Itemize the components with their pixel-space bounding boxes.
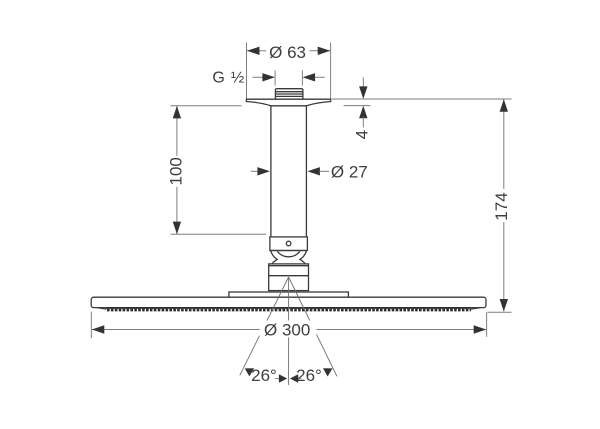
dimension G1/2 leader line left — [253, 76, 264, 78]
dimension 100 arrow up — [173, 106, 181, 119]
svg-text:26°: 26° — [296, 366, 322, 385]
spray cone right line — [289, 277, 337, 376]
thread line 3 — [275, 95, 303, 97]
dimension 100 line lower segment — [176, 187, 178, 234]
dimension 4 arrow down — [359, 86, 367, 99]
dimension D63 arrow left — [247, 47, 260, 55]
dimension D63 arrow right — [318, 47, 331, 55]
collar box — [270, 237, 308, 251]
svg-text:Ø 300: Ø 300 — [264, 320, 310, 339]
pipe right edge — [305, 106, 307, 237]
plate chamfer left — [97, 308, 107, 310]
pipe left edge — [270, 106, 272, 237]
dimension 174 bottom extension line — [487, 311, 511, 313]
angle 26 center stub left — [275, 378, 279, 380]
joint base box divider — [269, 275, 309, 277]
nozzle dashes — [107, 309, 471, 312]
svg-text:Ø 27: Ø 27 — [331, 162, 368, 181]
dimension 100 top extension line — [171, 105, 242, 107]
dimension 174 line upper segment — [503, 99, 505, 189]
dimension 4 top extension line (ceiling plane, shared with 174) — [332, 98, 512, 100]
dimension 4 lower leader — [362, 117, 364, 127]
angle 26 center arrow pointing left — [290, 374, 298, 383]
hub step — [229, 292, 349, 297]
dimension G1/2 tick left — [274, 70, 276, 85]
dimension D27 leader line left — [251, 170, 263, 172]
dimension D300 label background — [260, 321, 317, 338]
dimension D63 extension line left — [246, 43, 248, 99]
dimension D300 arrow right — [474, 325, 487, 333]
dimension 174 arrow up — [500, 99, 508, 112]
ceiling flange — [246, 99, 330, 106]
dimension G1/2 arrow right — [303, 73, 316, 81]
dimension 174 line lower segment — [503, 222, 505, 311]
dimension 100 line upper segment — [176, 106, 178, 156]
svg-text:174: 174 — [492, 192, 511, 220]
collar hole — [286, 241, 291, 246]
thread line 2 — [275, 93, 303, 95]
svg-text:26°: 26° — [251, 366, 277, 385]
thread line 1 — [275, 91, 303, 93]
shower plate — [91, 297, 486, 307]
nozzle face line — [107, 307, 472, 309]
angle 26 center stub right — [298, 378, 302, 380]
dimension D63 line right segment — [310, 50, 331, 52]
svg-text:G ½: G ½ — [212, 70, 245, 87]
dimension D300 extension line left — [90, 312, 92, 338]
svg-text:4: 4 — [352, 130, 371, 139]
dimension D300 line left segment — [92, 329, 260, 331]
dimension 100 arrow down — [173, 222, 181, 235]
plate chamfer right — [471, 308, 481, 310]
dimension 4 upper leader — [362, 78, 364, 93]
angle 26 outer arrow right — [323, 368, 333, 376]
dimension 4 arrow up — [359, 106, 367, 119]
joint base box top band — [269, 265, 309, 267]
dimension D63 extension line right — [330, 43, 332, 99]
angle 26 center arrow pointing right — [279, 374, 287, 383]
dimension D27 leader line right — [320, 170, 330, 172]
svg-text:Ø 63: Ø 63 — [269, 43, 306, 62]
thread nipple outline — [275, 89, 303, 100]
joint base box — [269, 264, 309, 291]
dimension G1/2 leader line right — [315, 76, 325, 78]
dimension G1/2 tick right — [301, 70, 303, 85]
dimension D300 arrow left — [92, 325, 105, 333]
dimension 174 arrow down — [500, 299, 508, 312]
angle 26 outer arrow left — [245, 368, 254, 376]
dimension D300 line right segment — [316, 329, 486, 331]
spray cone center line — [288, 277, 290, 385]
dimension D27 arrow right — [307, 167, 320, 175]
dimension 4 bottom reference line — [344, 105, 371, 107]
dimension D300 extension line right — [486, 313, 488, 337]
svg-text:100: 100 — [166, 157, 185, 185]
dimension 100 bottom extension line — [171, 233, 267, 235]
ball joint waist — [271, 251, 307, 265]
spray cone left line — [240, 277, 289, 375]
ball arc — [277, 251, 300, 256]
dimension D27 arrow left — [257, 167, 270, 175]
dimension D63 line left segment — [247, 50, 266, 52]
dimension G1/2 arrow left — [262, 73, 275, 81]
